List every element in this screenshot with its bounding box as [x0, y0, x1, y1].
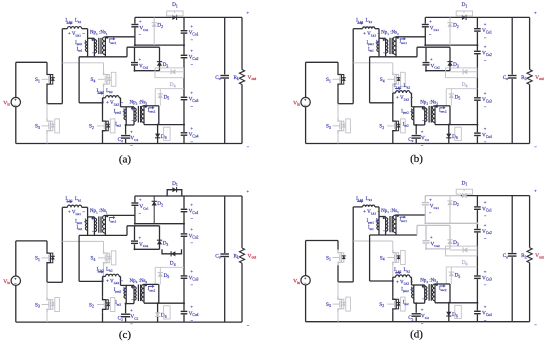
- svg-text:+ VLk2 −: + VLk2 −: [106, 280, 123, 285]
- svg-text:Isec2: Isec2: [148, 287, 156, 292]
- svg-text:−: −: [484, 283, 487, 288]
- svg-text:+: +: [484, 269, 487, 274]
- svg-text:Im2: Im2: [403, 301, 409, 306]
- svg-text:−: −: [190, 37, 193, 42]
- svg-text:Np2 :Ns2: Np2 :Ns2: [420, 279, 438, 284]
- svg-text:−: −: [484, 58, 487, 63]
- svg-text:Ipm1: Ipm1: [367, 41, 375, 46]
- svg-text:+: +: [484, 22, 487, 27]
- svg-text:−: −: [130, 143, 133, 148]
- svg-text:+: +: [190, 48, 193, 53]
- svg-text:+: +: [383, 215, 386, 220]
- svg-text:−: −: [190, 139, 193, 144]
- svg-text:−: −: [383, 50, 386, 55]
- svg-text:Isec2: Isec2: [148, 108, 156, 113]
- svg-text:+: +: [190, 269, 193, 274]
- svg-text:+: +: [484, 44, 487, 49]
- svg-text:Im1: Im1: [368, 47, 374, 52]
- svg-text:Isec2: Isec2: [439, 108, 447, 113]
- svg-text:Np2 :Ns2: Np2 :Ns2: [130, 279, 148, 284]
- svg-text:+: +: [484, 91, 487, 96]
- svg-text:+: +: [190, 202, 193, 207]
- svg-text:+: +: [131, 285, 134, 290]
- svg-text:−: −: [484, 214, 487, 219]
- svg-text:+: +: [247, 189, 250, 194]
- svg-text:−: −: [484, 318, 487, 323]
- svg-text:Np1 :Ns1: Np1 :Ns1: [381, 31, 399, 36]
- svg-text:−: −: [138, 32, 141, 37]
- svg-text:−: −: [534, 323, 537, 328]
- svg-text:+: +: [190, 304, 193, 309]
- svg-text:+: +: [92, 216, 95, 221]
- svg-text:+: +: [534, 188, 537, 193]
- svg-text:+: +: [484, 222, 487, 227]
- svg-text:Np1 :Ns1: Np1 :Ns1: [90, 209, 108, 214]
- svg-text:Im1: Im1: [368, 226, 374, 231]
- svg-text:+: +: [190, 126, 193, 131]
- svg-text:−: −: [190, 241, 193, 246]
- svg-text:+: +: [139, 19, 142, 24]
- svg-text:Isec1: Isec1: [109, 218, 117, 223]
- svg-text:+: +: [429, 197, 432, 202]
- svg-text:−: −: [190, 62, 193, 67]
- svg-text:(c): (c): [119, 329, 132, 341]
- svg-text:+ VLk1 −: + VLk1 −: [68, 32, 85, 37]
- svg-text:+ VLk2 −: + VLk2 −: [106, 101, 123, 106]
- svg-text:+: +: [130, 307, 133, 312]
- svg-text:+: +: [421, 129, 424, 134]
- svg-text:+: +: [190, 24, 193, 29]
- svg-text:+ VLk2 −: + VLk2 −: [396, 280, 413, 285]
- svg-text:+: +: [190, 90, 193, 95]
- svg-text:Ipm1: Ipm1: [367, 219, 375, 224]
- svg-text:+ VLk1 −: + VLk1 −: [68, 211, 85, 216]
- svg-text:−: −: [422, 118, 425, 123]
- svg-text:Ipm2: Ipm2: [401, 288, 409, 293]
- svg-text:−: −: [190, 216, 193, 221]
- svg-text:+: +: [421, 307, 424, 312]
- svg-text:Ipm2: Ipm2: [114, 109, 122, 114]
- svg-text:−: −: [130, 321, 133, 326]
- svg-text:+: +: [430, 235, 433, 240]
- svg-text:+: +: [92, 37, 95, 42]
- svg-text:+: +: [131, 106, 134, 111]
- svg-text:−: −: [429, 32, 432, 37]
- svg-text:+ VLk1 −: + VLk1 −: [363, 210, 380, 215]
- svg-text:−: −: [247, 323, 250, 328]
- svg-text:+: +: [422, 106, 425, 111]
- svg-text:+: +: [484, 200, 487, 205]
- svg-text:+: +: [430, 56, 433, 61]
- svg-text:−: −: [484, 140, 487, 145]
- svg-text:Isec1: Isec1: [400, 218, 408, 223]
- svg-text:Np2 :Ns2: Np2 :Ns2: [420, 100, 438, 105]
- svg-text:+: +: [130, 129, 133, 134]
- svg-text:Isec1: Isec1: [400, 40, 408, 45]
- svg-text:+: +: [429, 19, 432, 24]
- svg-text:+: +: [484, 304, 487, 309]
- svg-text:Np1 :Ns1: Np1 :Ns1: [90, 31, 108, 36]
- svg-text:Im2: Im2: [115, 122, 121, 127]
- svg-text:+: +: [534, 10, 537, 15]
- svg-text:−: −: [131, 118, 134, 123]
- svg-text:−: −: [429, 210, 432, 215]
- svg-text:Np2 :Ns2: Np2 :Ns2: [130, 100, 148, 105]
- svg-text:+: +: [422, 285, 425, 290]
- svg-text:Im2: Im2: [115, 301, 121, 306]
- svg-text:−: −: [421, 143, 424, 148]
- svg-text:−: −: [131, 297, 134, 302]
- svg-text:−: −: [383, 229, 386, 234]
- svg-text:Im1: Im1: [77, 226, 83, 231]
- svg-text:+ VLk2 −: + VLk2 −: [396, 96, 413, 101]
- svg-text:−: −: [484, 35, 487, 40]
- svg-text:+: +: [139, 235, 142, 240]
- svg-text:−: −: [484, 104, 487, 109]
- svg-text:Im2: Im2: [403, 122, 409, 127]
- svg-text:−: −: [422, 296, 425, 301]
- svg-text:+: +: [383, 37, 386, 42]
- svg-text:+: +: [247, 10, 250, 15]
- svg-text:(a): (a): [119, 154, 132, 166]
- svg-text:−: −: [247, 145, 250, 150]
- svg-text:−: −: [92, 229, 95, 234]
- svg-text:+: +: [190, 227, 193, 232]
- svg-text:Ipm1: Ipm1: [75, 220, 83, 225]
- svg-text:(b): (b): [410, 153, 423, 165]
- svg-text:Np1 :Ns1: Np1 :Ns1: [381, 209, 399, 214]
- svg-text:−: −: [190, 283, 193, 288]
- svg-text:+: +: [484, 126, 487, 131]
- svg-text:−: −: [190, 318, 193, 323]
- svg-text:−: −: [190, 104, 193, 109]
- svg-text:Ipm1: Ipm1: [75, 41, 83, 46]
- svg-text:Isec2: Isec2: [439, 287, 447, 292]
- svg-text:(d): (d): [410, 329, 423, 341]
- svg-text:−: −: [92, 50, 95, 55]
- svg-text:Ipm2: Ipm2: [401, 109, 409, 114]
- svg-text:−: −: [138, 211, 141, 216]
- svg-text:−: −: [534, 145, 537, 150]
- svg-text:+ VLk1 −: + VLk1 −: [363, 32, 380, 37]
- svg-text:+: +: [139, 56, 142, 61]
- svg-text:Isec1: Isec1: [109, 40, 117, 45]
- svg-text:+: +: [139, 197, 142, 202]
- svg-text:Ipm2: Ipm2: [114, 288, 122, 293]
- svg-text:−: −: [421, 321, 424, 326]
- svg-text:Im1: Im1: [77, 47, 83, 52]
- svg-text:−: −: [484, 236, 487, 241]
